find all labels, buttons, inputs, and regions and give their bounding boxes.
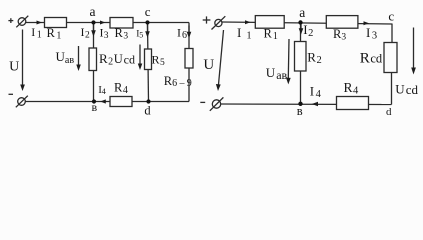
svg-text:R2: R2 <box>99 51 113 68</box>
svg-text:I1: I1 <box>237 25 252 42</box>
svg-text:Uав: Uав <box>266 65 288 82</box>
svg-text:U: U <box>9 59 19 74</box>
svg-text:I4: I4 <box>98 84 106 96</box>
svg-text:a: a <box>90 4 96 19</box>
svg-text:Uав: Uав <box>56 49 75 66</box>
svg-text:I3: I3 <box>100 26 109 42</box>
svg-text:I6: I6 <box>177 26 187 42</box>
svg-text:в: в <box>91 100 97 114</box>
svg-text:R4: R4 <box>114 81 128 97</box>
svg-text:Ucd: Ucd <box>114 52 135 67</box>
svg-text:R4: R4 <box>344 80 360 97</box>
svg-text:U: U <box>203 57 214 73</box>
svg-text:Rcd: Rcd <box>360 50 383 66</box>
svg-text:c: c <box>388 9 394 24</box>
svg-text:R6 – 9: R6 – 9 <box>164 74 192 89</box>
svg-text:d: d <box>386 106 392 118</box>
svg-text:I3: I3 <box>366 25 377 42</box>
svg-text:I2: I2 <box>81 25 91 41</box>
svg-text:R3: R3 <box>333 27 346 43</box>
svg-text:a: a <box>299 5 305 20</box>
svg-text:R1: R1 <box>47 26 62 42</box>
svg-text:R2: R2 <box>307 50 321 67</box>
svg-text:Ucd: Ucd <box>395 82 418 97</box>
svg-text:I4: I4 <box>310 84 322 101</box>
svg-text:I2: I2 <box>303 22 313 39</box>
svg-text:R5: R5 <box>152 53 166 69</box>
svg-text:d: d <box>144 103 151 117</box>
svg-text:c: c <box>145 4 151 19</box>
svg-text:в: в <box>297 104 303 118</box>
svg-text:I1: I1 <box>31 25 42 41</box>
svg-text:I5: I5 <box>136 29 143 39</box>
